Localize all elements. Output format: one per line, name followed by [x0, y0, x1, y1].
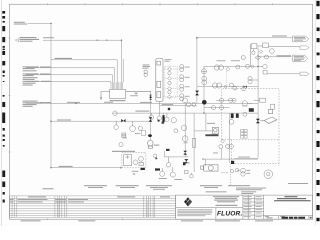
- wire: x194.1 vertical: [193, 113, 195, 172]
- border zone tick marks top: [8, 3, 272, 220]
- arrowhead into package: [120, 167, 122, 169]
- connector flag feed 2: [15, 39, 18, 42]
- dashed box around column gauges: [165, 66, 177, 97]
- arrowhead on y159.1: [202, 158, 205, 160]
- legend labels: [159, 178, 183, 180]
- right top instrument group: [250, 43, 300, 67]
- wire: branch y121.2 from left header: [51, 120, 151, 122]
- wire: pump discharge vertical: [150, 91, 152, 141]
- diamond: [259, 50, 262, 53]
- bubble on bottom header left end: [113, 111, 117, 115]
- wire: mixer drop vertical: [121, 40, 123, 82]
- wire: sub header y107.7: [204, 107, 230, 109]
- drawing title text lines: [274, 196, 311, 201]
- wire: overhead line y37.8: [197, 37, 293, 39]
- wire: x163.5 drop from bottom header: [163, 113, 165, 123]
- label: feed y74.8: [23, 70, 51, 76]
- fluor diamond logo: [184, 197, 192, 206]
- control valve dark on x150.6 lower: [149, 117, 153, 121]
- label: mixer tag under box: [110, 100, 126, 101]
- label: bottoms line tag: [162, 103, 174, 106]
- small box symbol near circles: [141, 130, 145, 135]
- flow arrows on feed line 2: [97, 39, 109, 41]
- level instrument diamonds on column: [168, 67, 172, 99]
- logo sparkle: [185, 198, 190, 204]
- wire: riser to bottom unit: [205, 159, 207, 166]
- label: feed stream 2 text: [20, 37, 55, 42]
- unit box bottom with circle: [201, 165, 218, 171]
- node: feed line 1 label leader: [28, 22, 51, 24]
- rev table header + entries text: [10, 196, 170, 202]
- small box 2: [263, 43, 269, 48]
- dark bar 2 below bottom header: [236, 114, 239, 118]
- rev table verticals: [12, 196, 155, 218]
- header line labels: [217, 59, 226, 62]
- control valve dark on x258.1: [256, 119, 260, 123]
- label above compressor: [207, 122, 215, 125]
- mixer vessel box: [110, 89, 126, 98]
- circle pair below dashed bottom: [231, 168, 246, 176]
- wire to border arrow 2: [267, 73, 300, 75]
- border zone tick marks bottom: [48, 218, 236, 220]
- label: feed y81.6: [23, 77, 51, 85]
- right film sprocket marks: [316, 1, 319, 221]
- text under package: [132, 171, 139, 172]
- dark mark on riser: [166, 149, 170, 151]
- wire: cross header y66.5: [204, 66, 258, 68]
- label above elbow: [238, 156, 250, 159]
- wire: recycle line top right corner: [196, 38, 198, 104]
- wire to border arrow 1: [268, 46, 300, 48]
- label: branch y167.7 tag: [59, 166, 73, 167]
- small instrument right of package: [154, 154, 157, 157]
- label: bottom feed y103.4: [23, 101, 152, 107]
- company text block: [213, 196, 239, 206]
- small circles top: [243, 112, 247, 116]
- dark target mark at elbow end: [231, 161, 234, 164]
- svg-text:FLUOR.: FLUOR.: [217, 211, 242, 218]
- separator under logo area: [176, 207, 243, 209]
- dark valve on x185.2: [183, 151, 187, 155]
- circles on y107.7: [211, 106, 223, 110]
- wire: x258.1 main right vertical: [257, 48, 259, 158]
- label above tank package: [112, 151, 135, 152]
- wire: stub y100.3: [216, 99, 235, 101]
- wire: y156.9 line: [164, 151, 188, 157]
- dark mark below package: [141, 168, 145, 170]
- circle under: [252, 51, 255, 54]
- control valve dark on x196.9: [195, 91, 199, 96]
- dark bar below bottom header: [231, 114, 234, 119]
- border zone tick marks left: [8, 38, 10, 152]
- bubble left of pump: [119, 143, 123, 147]
- wire: main left header vertical: [50, 23, 52, 167]
- wire: branch y167.7 from left header: [51, 167, 123, 169]
- label: feed y67.8: [23, 66, 51, 69]
- bubble on x229.6: [219, 139, 234, 148]
- package contents: pump w/ circle: [242, 98, 275, 116]
- disclaimer paragraph: [177, 209, 212, 216]
- dashed lower-left edge: [231, 140, 233, 164]
- circles under y156.9: [160, 157, 176, 177]
- dashed lead from diamond: [226, 71, 228, 85]
- instruments on y66.5 header: [214, 64, 254, 71]
- column packing 1: [157, 81, 161, 87]
- border arrow connector 2: [300, 72, 309, 75]
- motor box M: [271, 104, 275, 109]
- off-page connector box line2: [293, 55, 308, 61]
- compressor base hatch dark: [205, 134, 218, 136]
- tank in package: [124, 155, 144, 166]
- wire: feed line y81.6: [26, 82, 111, 83]
- off-page connector box line1: [293, 36, 309, 42]
- wire: bottom header y113.1: [113, 112, 259, 114]
- circles on bottoms junction: [186, 102, 195, 107]
- circles on y100.3: [219, 98, 236, 102]
- drain line with arrow: [101, 92, 110, 98]
- rev digit: [310, 217, 312, 219]
- wire: inlet to compressor unit: [194, 130, 212, 132]
- border arrow connector 1: [300, 46, 309, 49]
- wire: x229.6 drop: [229, 113, 231, 163]
- drain arrowhead: [100, 97, 102, 100]
- pump suction line: [126, 90, 151, 92]
- label: line2 tag: [277, 55, 292, 56]
- title box scale row: [264, 216, 313, 220]
- label above unit: [213, 152, 218, 155]
- bubble pair on x204: [202, 76, 207, 85]
- transmitter tag texts: [185, 67, 190, 97]
- dark blob row1: [183, 162, 186, 165]
- dark valve bar on x163.5: [162, 115, 164, 122]
- wire: x221.5 riser: [221, 149, 223, 160]
- compressor unit box with circle: [213, 127, 219, 134]
- signature rows: [243, 199, 264, 216]
- dark marks near package top: [249, 108, 254, 112]
- narrow rect on x194.1: [192, 138, 195, 147]
- wire: vertical x204: [203, 67, 205, 114]
- circle right: [270, 49, 275, 54]
- signature cell texts: [244, 196, 263, 217]
- wire: arrow to tank: [234, 158, 258, 160]
- label: pump tag right: [154, 145, 160, 146]
- scale cell: [265, 216, 285, 219]
- dashed drop from package: [229, 163, 231, 186]
- dark valve under y156.9: [184, 159, 188, 163]
- dashed internal divider: [222, 139, 280, 141]
- wire: long bottom header y103.4: [26, 102, 258, 104]
- bubbles hanging on y121.2: [114, 121, 143, 137]
- bubble chain lower-left-center: [171, 98, 188, 157]
- wire: y159.1 line: [204, 158, 258, 160]
- column vessel shell: [156, 59, 163, 102]
- column packing 2: [157, 92, 161, 98]
- paper right edge: [315, 0, 317, 226]
- top symbols row on line2: [241, 55, 268, 60]
- wire: feed line 2 horizontal to mixer drop: [43, 39, 122, 41]
- pump circle bottom: [148, 140, 154, 148]
- dash-dot legend line: [222, 171, 229, 173]
- instrument inline on x204: [202, 69, 207, 74]
- wire: second mixer drop: [122, 59, 124, 82]
- wire: feed line y67.8: [26, 68, 115, 82]
- control valve dark pair on x150.6 upper: [149, 95, 152, 100]
- column gauge dashed leads: [163, 69, 179, 97]
- label: line y59.8 tag: [55, 58, 73, 59]
- dashed package boundary upper: [222, 89, 280, 167]
- left film sprocket marks: [2, 11, 5, 203]
- bubble + box before arrow2: [258, 64, 267, 74]
- wire: x205.9 drop: [205, 113, 207, 131]
- transmitter circle pairs column: [180, 65, 184, 101]
- label: bottom header tag: [135, 111, 149, 112]
- level gauge circles: [168, 72, 171, 75]
- below-border file stamps: [21, 220, 274, 221]
- bubble pair left of column: [144, 70, 148, 76]
- interlock grid squares: [241, 129, 248, 138]
- dark ball valve on x204: [202, 100, 207, 105]
- wire: feed line y74.8: [26, 75, 113, 82]
- wire: column bottoms outlet: [159, 102, 197, 114]
- wire: mid header y86.7: [197, 86, 258, 88]
- dashed tank package boundary: [122, 153, 146, 168]
- flow arrow on y103.4: [75, 103, 78, 105]
- eductor tilted: [260, 109, 277, 123]
- bubble right of dark bars: [229, 119, 234, 124]
- wire: branch at y59.8 to mixer: [51, 60, 117, 82]
- label: branch y121.2 tag: [57, 120, 71, 121]
- small box 1: [251, 44, 257, 49]
- label: column note left: [143, 65, 151, 69]
- bubbles under column bottom line: [149, 113, 169, 121]
- stub wires: [250, 44, 262, 67]
- dark marks under bubbles: [158, 120, 160, 122]
- diagonal ditto marks: [58, 201, 149, 217]
- dark blob valve on x150.6 mid: [148, 134, 152, 137]
- right-mid bubbles: [242, 76, 258, 90]
- instruments on y86.7 header: [212, 83, 236, 90]
- dark gate valve on y121.2: [121, 119, 125, 122]
- valve+box: [260, 98, 266, 102]
- label: overhead line tag: [272, 36, 287, 37]
- title block verticals: [243, 195, 264, 219]
- wire: right line2 y56.8: [258, 56, 291, 58]
- paper left edge: [0, 0, 2, 226]
- dark mark at 157,169.5: [155, 168, 160, 170]
- mixer nozzle comb: [111, 82, 123, 89]
- dashed bottom edge: [232, 162, 279, 164]
- hand valve dark on y86.7: [244, 85, 247, 88]
- drawing number: [282, 217, 306, 219]
- rev table rows: [10, 198, 176, 215]
- column internal top box: [157, 61, 161, 65]
- label: feed stream 1 text: [14, 22, 27, 25]
